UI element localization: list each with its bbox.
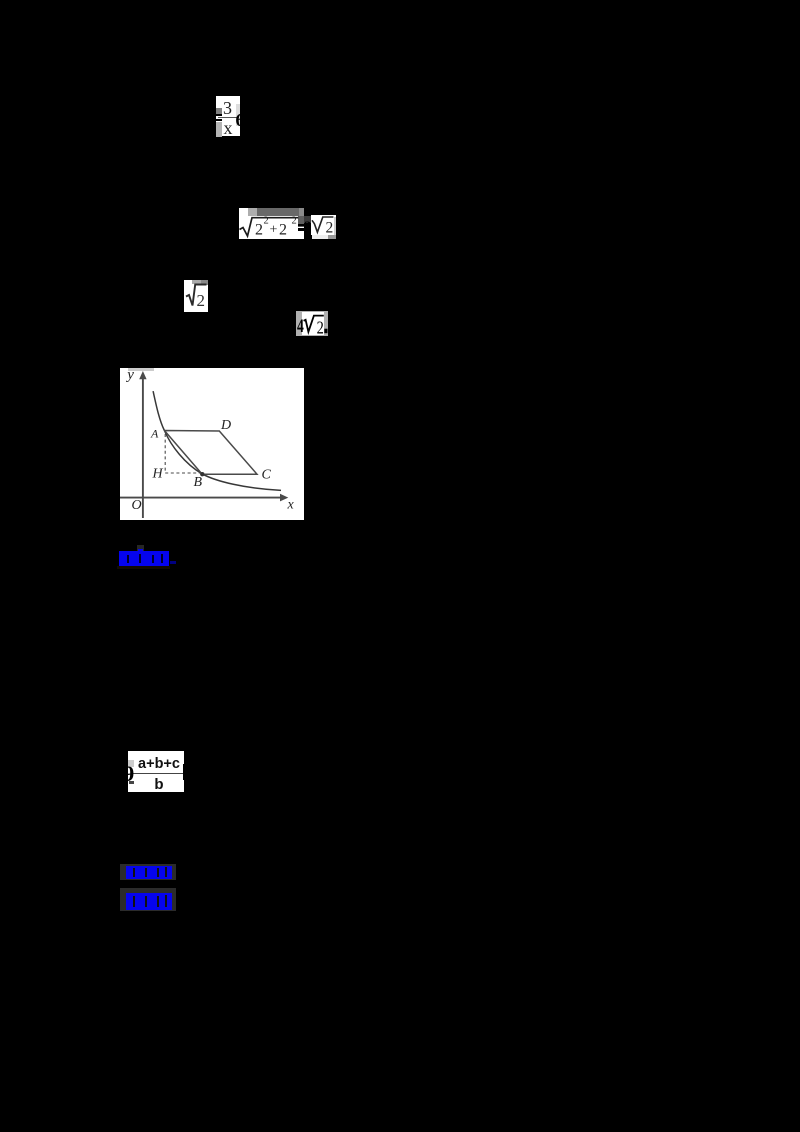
F2 top gray band middle: [257, 208, 299, 216]
svg-text:2: 2: [264, 216, 269, 227]
F4 radical 2: [184, 280, 208, 312]
blue tag 1 bottom dark strip: [117, 566, 170, 569]
svg-text:C: C: [262, 468, 272, 483]
F2 equals sign lower bar: [298, 228, 304, 230]
svg-text:2: 2: [279, 222, 287, 239]
svg-text:A: A: [150, 427, 159, 441]
F1 equals sign lower bar: [210, 119, 222, 121]
F3 radical 2: [311, 215, 336, 239]
F6 right partial glyph: [183, 764, 189, 780]
F3 bottom light strip: [312, 235, 328, 238]
F4 top right darker band: [201, 280, 208, 285]
F2 top gray band light left square: [248, 208, 257, 216]
parallelogram ABCD: [164, 431, 257, 475]
formula image F3: sqrt(2) result: [311, 215, 336, 235]
F3 right light strip: [334, 217, 336, 236]
F1 left gray patch upper: [216, 108, 222, 116]
formula image F4: sqrt(2) standalone: [184, 280, 208, 312]
svg-text:y: y: [125, 368, 134, 383]
svg-text:2: 2: [317, 317, 324, 337]
svg-text:2: 2: [197, 291, 206, 310]
F1 denominator x: [219, 118, 237, 138]
svg-text:D: D: [220, 418, 231, 433]
F6 left paren glyph (partially on black): [123, 761, 137, 785]
F1 right light strip: [236, 104, 240, 126]
svg-text:2: 2: [326, 220, 334, 237]
formula image F5: 4 sqrt(2): [296, 311, 328, 336]
svg-text:O: O: [132, 498, 142, 513]
F2 right gray square: [298, 216, 304, 227]
blue tag 1 trailing dim mark: [170, 561, 176, 565]
blue tag 1: [119, 551, 169, 566]
F2-F3 junction dark gray block: [304, 216, 311, 224]
F1 fraction bar: [218, 117, 239, 118]
svg-text:B: B: [194, 475, 203, 490]
formula image F2: sqrt(2^2+2^2): [239, 208, 304, 239]
x-axis: [120, 497, 285, 499]
small gray artifact above blue tag 1: [137, 545, 145, 552]
formula image F1: = 3/x: [216, 96, 240, 136]
graph top gray strip: [128, 368, 154, 371]
F1 trailing glyph 6 (partially off box): [236, 110, 250, 130]
F2 result coefficient 2 between boxes: [304, 219, 313, 234]
F6 numerator a+b+c: [134, 756, 184, 774]
blue tag 3: [126, 893, 172, 910]
graph image: hyperbola with parallelogram ABCD: [120, 368, 304, 520]
blue tag 2: [126, 866, 172, 879]
F1 numerator 3: [219, 98, 237, 118]
F2 radical drawing: [239, 208, 304, 239]
formula image F6: (a+b+c)/b: [128, 751, 184, 792]
F5 content 4 sqrt 2: [296, 311, 330, 337]
svg-text:x: x: [287, 498, 295, 513]
F1 equals sign upper bar (partially on black): [210, 114, 222, 116]
svg-text:4: 4: [297, 315, 304, 337]
F2 top gray band right: [299, 208, 304, 216]
F6 denominator b: [134, 776, 184, 794]
y-axis: [142, 374, 144, 518]
F6 fraction bar: [133, 773, 184, 774]
F6 left gray patch: [128, 760, 134, 767]
F6 left lower gray speck: [129, 781, 134, 784]
dashed AH vertical: [164, 434, 166, 473]
gray card A: [120, 864, 176, 880]
hyperbola curve: [153, 391, 281, 490]
dashed HB horizontal: [165, 472, 200, 474]
F1 left gray patch lower: [216, 122, 222, 137]
svg-text:+: +: [270, 223, 278, 238]
blue tag 1 inner dark notches: [127, 555, 129, 563]
B point dot: [200, 472, 204, 476]
svg-text:H: H: [152, 467, 164, 482]
blue tag 1 ascender nub: [138, 549, 143, 552]
F4 top right gray band: [192, 280, 208, 284]
F2 equals sign upper bar (partially hidden on black): [298, 224, 304, 226]
F5 white inner: [302, 312, 324, 335]
F3 right bottom gray square: [328, 235, 336, 239]
svg-text:2: 2: [292, 216, 297, 227]
svg-text:2: 2: [255, 222, 263, 239]
gray card B: [120, 888, 176, 911]
